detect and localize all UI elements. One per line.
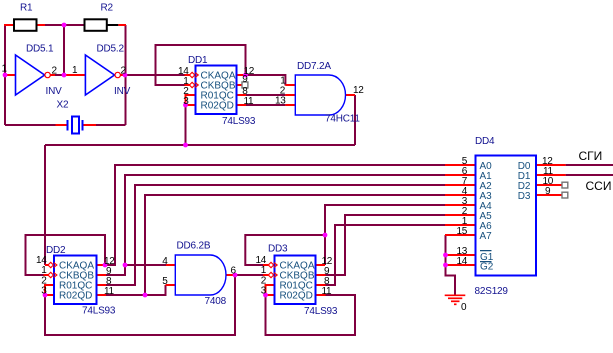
svg-text:0: 0 [461, 302, 467, 313]
svg-text:СГИ: СГИ [579, 149, 603, 163]
svg-text:3: 3 [41, 286, 47, 297]
svg-text:74HC11: 74HC11 [325, 114, 360, 125]
svg-text:4: 4 [162, 256, 168, 267]
svg-text:14: 14 [456, 256, 467, 267]
svg-text:5: 5 [162, 276, 168, 287]
svg-text:DD2: DD2 [46, 245, 66, 256]
svg-text:74LS93: 74LS93 [304, 306, 338, 317]
svg-text:ССИ: ССИ [586, 179, 612, 193]
svg-text:INV: INV [114, 86, 131, 97]
svg-text:DD5.2: DD5.2 [97, 44, 125, 55]
svg-text:DD3: DD3 [268, 244, 288, 255]
svg-text:15: 15 [456, 226, 467, 237]
svg-text:X2: X2 [57, 100, 69, 111]
svg-text:13: 13 [275, 96, 286, 107]
svg-text:DD6.2B: DD6.2B [177, 241, 211, 252]
svg-text:1: 1 [261, 265, 267, 276]
svg-text:2: 2 [52, 66, 58, 77]
svg-text:R2: R2 [101, 3, 114, 14]
svg-text:11: 11 [322, 286, 333, 297]
svg-text:12: 12 [353, 85, 364, 96]
svg-text:DD5.1: DD5.1 [26, 44, 54, 55]
svg-text:9: 9 [242, 74, 248, 85]
svg-text:R1: R1 [20, 3, 33, 14]
svg-text:74LS93: 74LS93 [82, 306, 116, 317]
svg-text:1: 1 [2, 64, 8, 75]
svg-text:1: 1 [41, 265, 47, 276]
svg-text:R02QD: R02QD [280, 291, 313, 302]
svg-text:2: 2 [121, 66, 127, 77]
svg-text:74LS93: 74LS93 [222, 116, 256, 127]
svg-text:3: 3 [261, 286, 267, 297]
svg-text:3: 3 [183, 96, 189, 107]
svg-text:DD7.2A: DD7.2A [297, 61, 331, 72]
svg-text:G2: G2 [480, 262, 494, 273]
svg-text:6: 6 [231, 266, 237, 277]
svg-text:DD1: DD1 [188, 55, 208, 66]
svg-text:82S129: 82S129 [475, 286, 509, 297]
svg-text:A7: A7 [480, 231, 493, 242]
svg-text:11: 11 [244, 96, 255, 107]
svg-text:9: 9 [545, 186, 551, 197]
svg-text:R02QD: R02QD [59, 291, 92, 302]
svg-text:11: 11 [104, 286, 115, 297]
svg-text:R02QD: R02QD [201, 101, 234, 112]
svg-text:7408: 7408 [205, 296, 227, 307]
svg-text:INV: INV [46, 86, 63, 97]
svg-text:DD4: DD4 [475, 136, 495, 147]
svg-text:1: 1 [72, 65, 78, 76]
svg-text:D3: D3 [518, 191, 531, 202]
